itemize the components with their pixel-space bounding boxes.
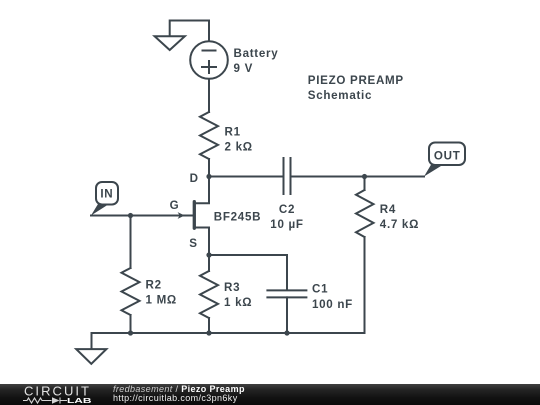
svg-text:2 kΩ: 2 kΩ	[225, 140, 253, 153]
CircuitLab logo	[0, 384, 110, 405]
svg-text:LAB: LAB	[67, 396, 92, 405]
resistor R4 4.7k	[356, 177, 374, 334]
resistor R2 1M	[122, 268, 140, 315]
resistor R3 1k	[200, 271, 218, 318]
junction R2/rail	[128, 330, 133, 335]
svg-text:R2: R2	[146, 279, 162, 292]
svg-text:IN: IN	[100, 188, 113, 201]
wire C2 to OUT node	[291, 176, 365, 178]
node S junction	[206, 252, 211, 257]
svg-text:1 MΩ: 1 MΩ	[146, 294, 177, 307]
svg-text:R4: R4	[380, 203, 396, 216]
svg-text:Schematic: Schematic	[308, 89, 372, 102]
wire S node down to R3	[208, 255, 210, 271]
wire node D to C2	[209, 176, 284, 178]
svg-text:C1: C1	[312, 283, 328, 296]
node D junction	[206, 174, 211, 179]
junction R3/rail	[206, 330, 211, 335]
footer bar	[0, 384, 540, 405]
footer credit text	[113, 384, 245, 394]
svg-text:PIEZO PREAMP: PIEZO PREAMP	[308, 74, 404, 87]
svg-text:G: G	[170, 199, 180, 212]
svg-text:OUT: OUT	[434, 149, 461, 162]
wire C1 to rail	[286, 297, 288, 333]
node OUT junction	[362, 174, 367, 179]
ground (top, battery negative)	[155, 36, 185, 50]
svg-text:D: D	[190, 172, 199, 185]
svg-text:1 kΩ: 1 kΩ	[224, 296, 252, 309]
svg-text:BF245B: BF245B	[214, 211, 261, 224]
node IN junction	[128, 213, 133, 218]
wire top rail to ground	[170, 21, 209, 36]
svg-text:R3: R3	[224, 281, 240, 294]
battery V1 9V	[190, 41, 228, 79]
wire S node to C1	[209, 255, 287, 290]
wire R3 to rail	[208, 318, 210, 333]
wire rail to ground	[91, 333, 93, 349]
svg-text:4.7 kΩ: 4.7 kΩ	[380, 218, 419, 231]
svg-text:S: S	[189, 237, 197, 250]
resistor R1 2k	[200, 112, 218, 159]
capacitor C1 100nF	[267, 290, 306, 297]
capacitor C2 10uF	[284, 158, 291, 194]
transistor Q1 BF245B N-JFET (bar, drain lead, source lead, gate arrow)	[178, 177, 209, 256]
wire R2 to rail	[130, 315, 132, 333]
svg-text:C2: C2	[279, 203, 295, 216]
svg-text:Battery: Battery	[234, 47, 279, 60]
wire IN node down to R2	[130, 216, 132, 269]
wire R1 to node D	[208, 159, 210, 177]
svg-text:9 V: 9 V	[234, 62, 254, 75]
wire battery top	[208, 21, 210, 41]
svg-text:10 µF: 10 µF	[270, 218, 303, 231]
svg-text:R1: R1	[225, 125, 241, 138]
svg-text:100 nF: 100 nF	[312, 298, 353, 311]
flag IN	[91, 182, 118, 216]
wire IN to gate	[91, 215, 193, 217]
wire OUT node to flag	[365, 176, 425, 178]
ground (bottom left)	[76, 349, 106, 364]
wire battery to R1	[208, 80, 210, 113]
bottom rail wire	[92, 332, 365, 334]
flag OUT	[424, 143, 465, 177]
junction C1/rail	[284, 330, 289, 335]
